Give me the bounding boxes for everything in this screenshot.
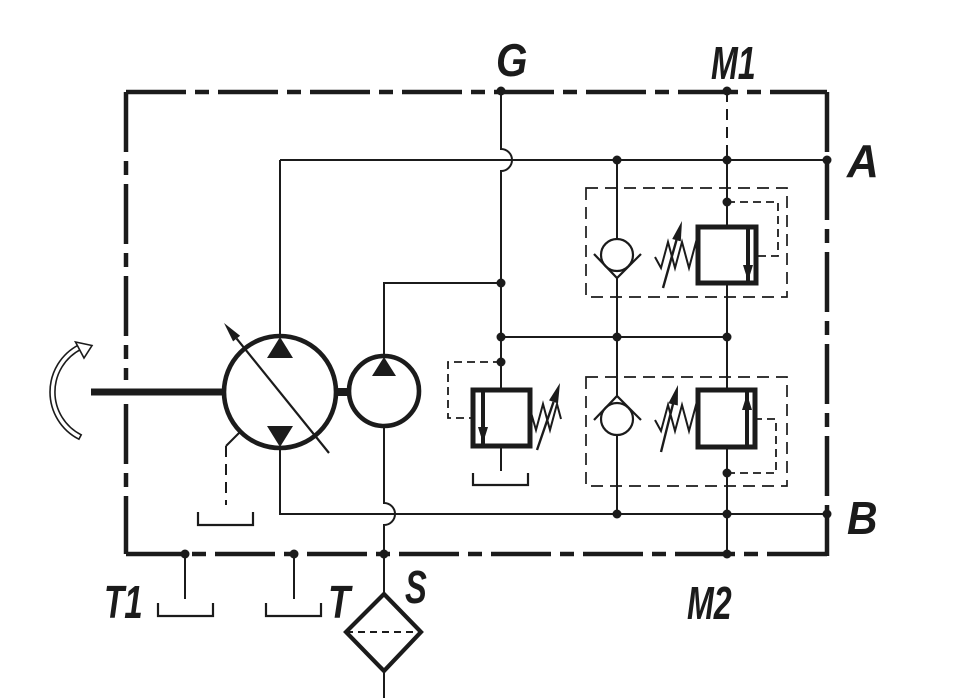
wire G line with hop over A [501,91,512,390]
relief valve RV1 box [698,227,756,283]
enclosure border right upper [825,92,830,160]
svg-text:A: A [846,135,879,187]
label M2 [687,578,732,629]
port T1 drop [184,554,186,599]
label B [847,493,878,544]
relief valve RV1 pilot dashed [727,202,778,256]
relief valve RV3 arrow [478,427,488,443]
relief valve RV2 box [698,390,755,447]
wire pump top riser [279,160,281,337]
relief valve RV3 pilot dashed [448,362,501,418]
wire check line mid [616,278,618,396]
wire mid connector G to valves [501,336,727,338]
filter S diamond [346,594,421,671]
wire line A horizontal [280,159,827,161]
case drain dashed [226,431,241,446]
enclosure border right mid [825,160,830,514]
pump P1 top triangle [267,337,293,358]
wire suction line with hop over B [384,426,395,594]
wire below filter [383,671,385,698]
label T [328,576,353,628]
pump P1 variable arrow [237,339,329,453]
svg-text:S: S [405,563,427,614]
enclosure border left lower [124,404,129,554]
relief valve RV1 arrow [743,265,753,281]
case drain tank [198,512,253,525]
label A [846,135,879,187]
svg-text:M1: M1 [711,38,756,89]
enclosure border bottom [126,552,827,557]
relief valve RV3 piston line [481,392,485,444]
pump P2 circle [349,356,419,426]
label M1 [711,38,756,89]
svg-text:G: G [496,36,527,87]
wire charge pump to G [384,283,501,357]
wire check line upper [616,160,618,240]
relief valve RV2 piston line [745,392,749,445]
pump link [336,388,349,396]
wire M2 drop to border [726,514,728,554]
label S [405,563,427,614]
wire check line lower [616,435,618,514]
relief valve RV3 tank [473,473,528,485]
relief valve RV3 adjust arrow [537,402,554,450]
pump P1 bottom triangle [267,426,293,447]
wire line B horizontal with pump bottom riser [280,447,827,514]
check valve V2 circle [601,403,633,435]
relief valve RV2 arrow [742,394,752,410]
relief valve RV1 piston line [746,229,750,281]
relief valve RV3 drain [500,446,502,471]
svg-text:T: T [328,576,353,628]
rotation arrow [50,345,81,439]
wire M1 dashed drop [726,91,728,160]
label T1 [104,578,143,628]
relief assembly 2 dashed box [586,377,787,486]
check valve V1 circle [601,239,633,271]
relief valve RV3 spring [530,404,561,430]
wire valve line lower [726,447,728,514]
svg-text:M2: M2 [687,578,732,629]
svg-text:B: B [847,493,878,544]
port T1 tank [158,603,213,616]
label G [496,36,527,87]
check valve V2 seat [594,396,641,420]
check valve V1 seat [594,254,641,278]
port T tank [266,603,321,616]
relief valve RV2 adjust arrow [661,404,673,452]
relief valve RV2 spring [655,405,698,431]
port T drop [293,554,295,599]
pump P1 circle [224,336,336,448]
drive shaft [91,389,225,396]
svg-text:T1: T1 [104,578,143,628]
filter S dashed element [346,631,421,633]
relief assembly 1 dashed box [586,188,787,297]
relief valve RV1 spring [655,242,698,268]
relief valve RV2 pilot dashed [727,419,776,473]
relief valve RV3 box [473,390,530,446]
enclosure border left upper [124,92,129,380]
enclosure border top [126,90,827,95]
enclosure border right corner [825,514,830,556]
wire valve line mid [726,283,728,390]
relief valve RV1 adjust arrow [663,240,677,288]
pump P2 triangle [372,357,396,376]
wire M1 valve line upper [726,160,728,227]
